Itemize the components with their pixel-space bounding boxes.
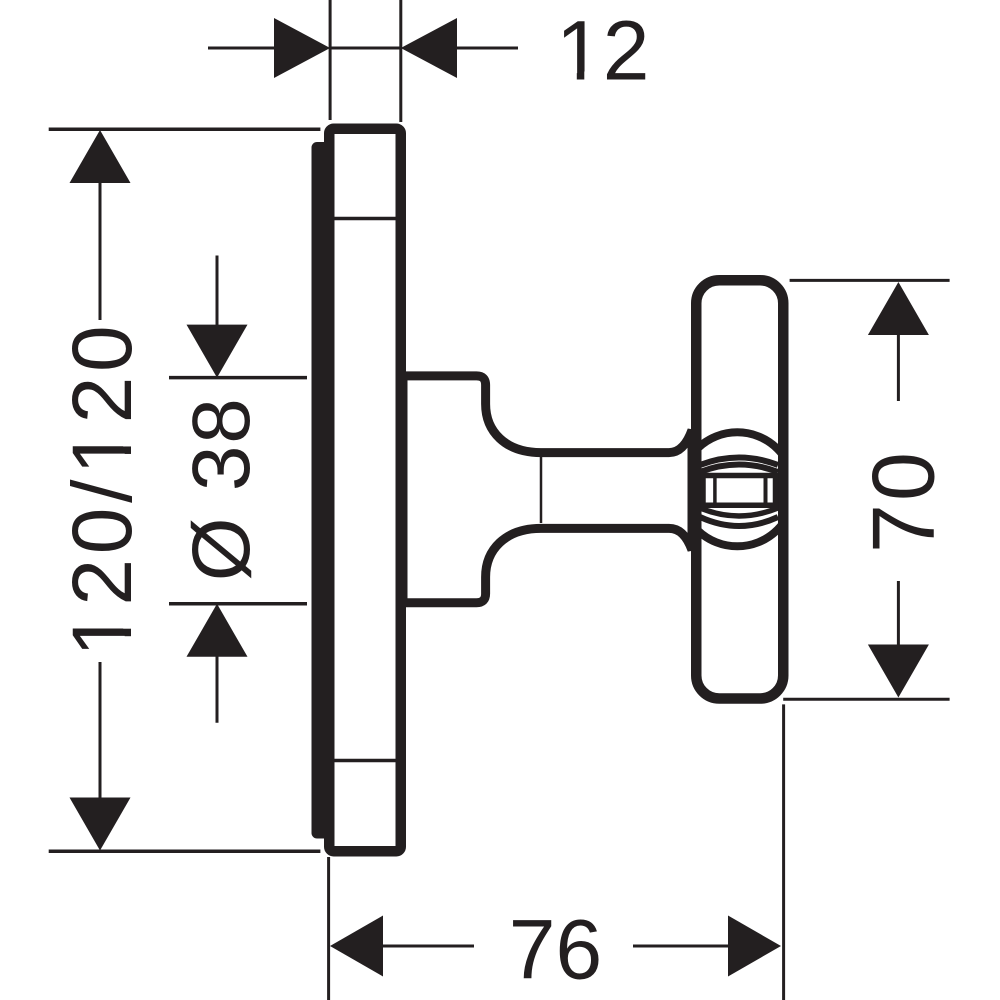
wall flange strip — [312, 142, 331, 839]
svg-text:1: 1 — [55, 610, 149, 657]
svg-text:0: 0 — [55, 507, 149, 554]
dim 120/120: arrow down — [70, 798, 131, 851]
dim 12: extension line left — [329, 0, 332, 120]
dim 12: leader line right — [455, 47, 518, 50]
dim 76: extension line right — [782, 704, 785, 1000]
dim O38: tick top — [169, 376, 307, 380]
cross handle bar — [696, 280, 783, 698]
dim 120/120: line lower — [99, 662, 102, 799]
dim 120/120: extension line bottom — [49, 850, 321, 854]
dim O38: arrow up — [187, 604, 248, 657]
svg-text:Ø 38: Ø 38 — [176, 396, 267, 581]
hub cap rectangle — [703, 476, 776, 506]
dim O38: upper line — [216, 256, 219, 327]
dim 120/120: line upper — [99, 181, 102, 320]
dim 70: line upper — [897, 333, 900, 401]
svg-text:76: 76 — [509, 903, 602, 997]
dim 76: arrow right — [728, 916, 781, 977]
dim 12: arrow left — [274, 18, 330, 78]
hub boss circle and cap arcs — [680, 432, 794, 546]
dim 76: extension line left — [327, 857, 330, 1000]
dim 70: arrow down — [868, 645, 929, 698]
dim 120/120: label — [55, 325, 149, 657]
hub cap divider right — [764, 478, 768, 503]
dim O38: tick bottom — [169, 602, 307, 606]
hub cap divider left — [713, 478, 717, 503]
dim 70: extension line top — [790, 279, 950, 282]
svg-text:/: / — [55, 479, 149, 503]
dim 76: line right — [633, 945, 730, 948]
dim 76: arrow left — [330, 916, 383, 977]
dim 12: arrow right — [401, 18, 457, 78]
svg-text:0: 0 — [55, 325, 149, 372]
dim O38: label — [176, 396, 267, 581]
dim 70: label — [854, 449, 953, 553]
plate inner line top — [335, 217, 397, 221]
svg-text:2: 2 — [55, 377, 149, 424]
dim 12: extension line right — [399, 0, 402, 122]
dim O38: arrow down — [187, 325, 248, 378]
svg-text:70: 70 — [854, 449, 953, 553]
dim 12: line between — [330, 47, 401, 50]
dim 70: line lower — [897, 581, 900, 648]
svg-text:2: 2 — [55, 559, 149, 606]
plate inner line bottom — [335, 759, 397, 763]
valve body: sleeve, trumpet, stem, hub flare — [403, 376, 692, 603]
escutcheon plate — [329, 129, 401, 852]
dim 12: leader line left — [208, 47, 276, 50]
dim 70: arrow up — [868, 282, 929, 335]
dim 76: line left — [381, 945, 474, 948]
dim 70: extension line bottom — [783, 698, 949, 701]
svg-text:12: 12 — [556, 4, 649, 98]
dim 120/120: arrow up — [70, 130, 131, 183]
dim 120/120: extension line top — [49, 127, 321, 131]
stem joint line — [540, 457, 543, 524]
svg-text:1: 1 — [55, 428, 149, 475]
dim O38: lower line — [216, 655, 219, 723]
